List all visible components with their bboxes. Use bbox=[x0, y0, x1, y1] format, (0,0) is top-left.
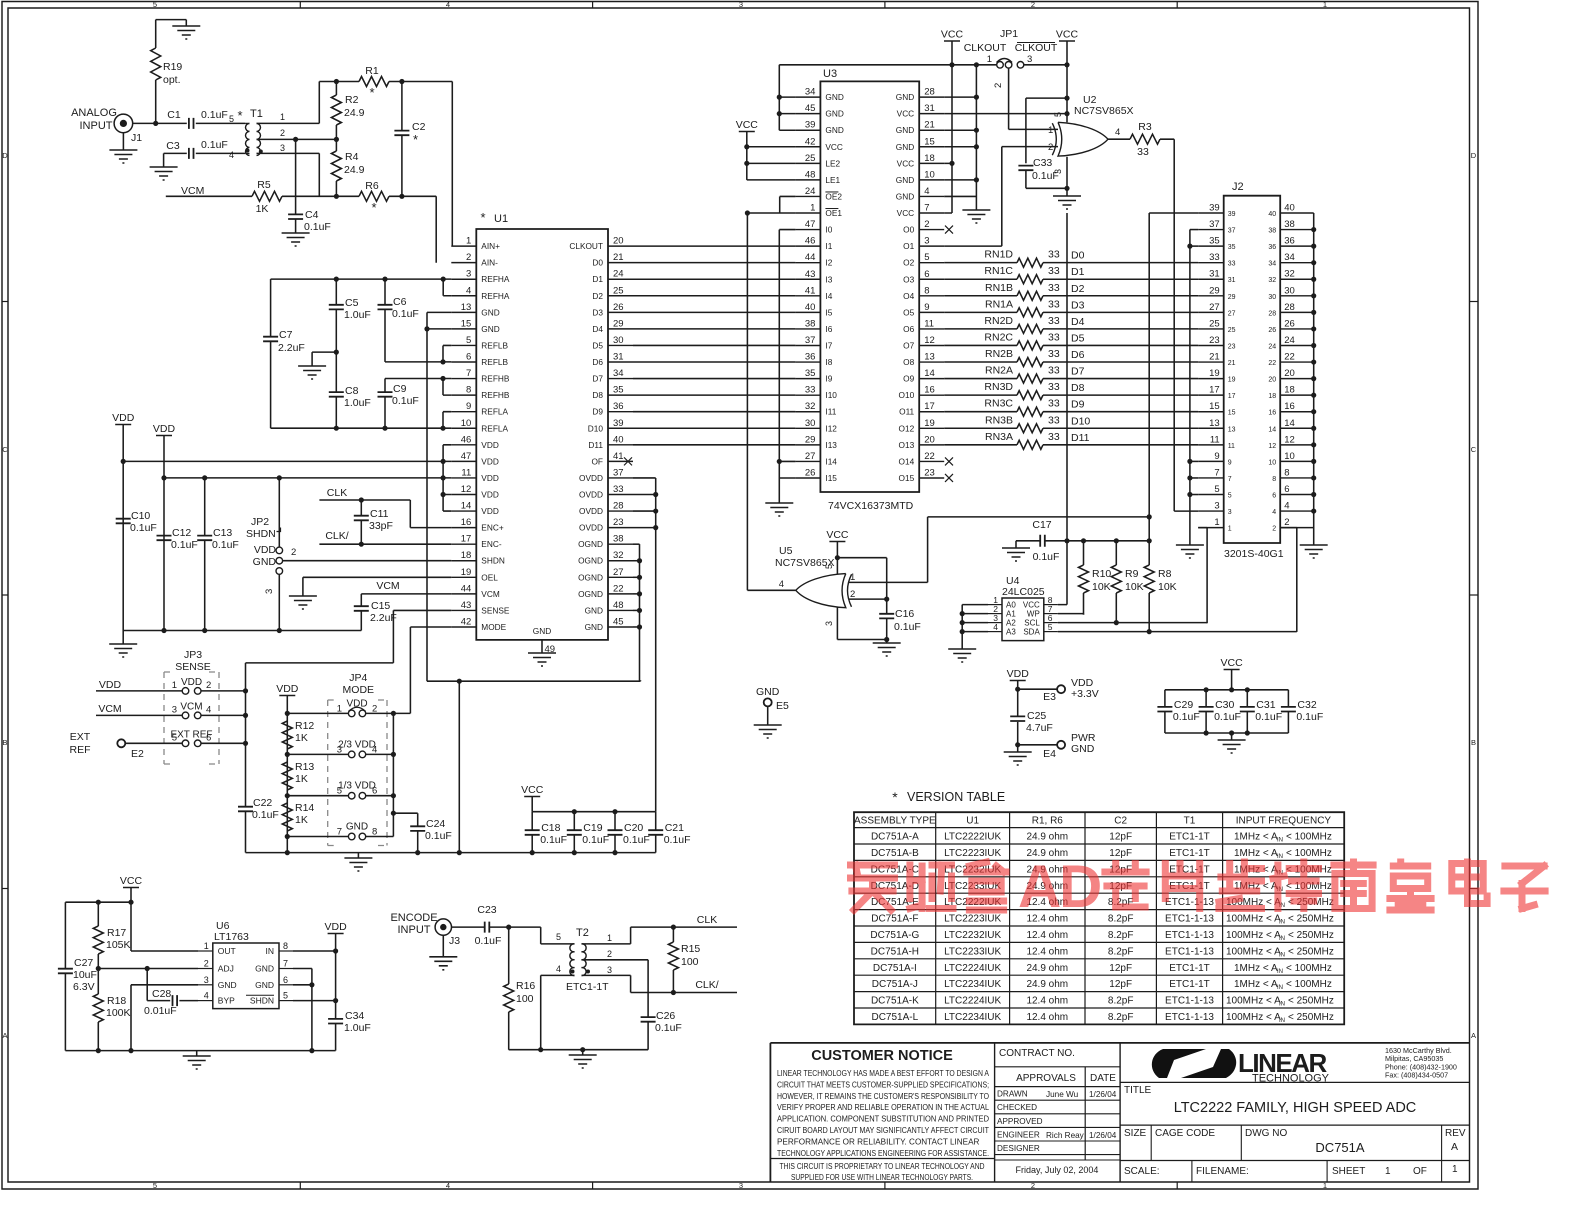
svg-text:CLK: CLK bbox=[327, 487, 347, 499]
svg-text:RN3A: RN3A bbox=[985, 431, 1013, 443]
svg-text:29: 29 bbox=[805, 434, 816, 445]
svg-text:I15: I15 bbox=[825, 473, 837, 483]
svg-text:17: 17 bbox=[461, 534, 472, 545]
svg-text:A3: A3 bbox=[1006, 628, 1016, 637]
svg-text:0.1uF: 0.1uF bbox=[1173, 711, 1200, 723]
svg-text:46: 46 bbox=[805, 236, 816, 247]
capacitor C7 bbox=[263, 279, 305, 428]
svg-text:3: 3 bbox=[1228, 509, 1232, 516]
wire MODE net bbox=[410, 627, 451, 713]
svg-text:*: * bbox=[413, 132, 418, 147]
wire T2 pin4 bbox=[538, 964, 574, 1052]
connector J1 bbox=[114, 114, 142, 144]
wire U1 CLKOUT to U3 I1 bbox=[633, 245, 795, 247]
svg-text:1: 1 bbox=[987, 54, 992, 65]
U3 no-connect X pins 2 22 23 bbox=[945, 226, 953, 482]
svg-text:D1: D1 bbox=[1071, 266, 1085, 278]
svg-text:38: 38 bbox=[1284, 219, 1295, 230]
svg-text:D: D bbox=[1471, 151, 1477, 160]
svg-text:37: 37 bbox=[613, 467, 624, 478]
svg-text:43: 43 bbox=[461, 600, 472, 611]
svg-text:LTC2234IUK: LTC2234IUK bbox=[944, 979, 1001, 990]
svg-text:C32: C32 bbox=[1297, 699, 1316, 711]
svg-text:6: 6 bbox=[283, 975, 288, 985]
wire VDD pin47 rail bbox=[123, 459, 451, 464]
svg-text:45: 45 bbox=[805, 103, 816, 114]
wire U5 VCC to C16 top bbox=[837, 558, 886, 614]
svg-text:CLKOUT: CLKOUT bbox=[964, 42, 1007, 54]
wire CLK/ to ENC- bbox=[319, 542, 451, 547]
capacitor C18 bbox=[525, 812, 567, 853]
svg-text:REFLA: REFLA bbox=[481, 423, 508, 433]
svg-text:33: 33 bbox=[1048, 249, 1060, 261]
svg-text:33: 33 bbox=[1048, 348, 1060, 360]
ground at U6 rail bbox=[183, 1051, 211, 1069]
svg-text:HOWEVER, IT REMAINS THE CUSTOM: HOWEVER, IT REMAINS THE CUSTOMER'S RESPO… bbox=[777, 1091, 989, 1101]
svg-text:LTC2223IUK: LTC2223IUK bbox=[944, 848, 1001, 859]
svg-text:LTC2234IUK: LTC2234IUK bbox=[944, 1012, 1001, 1023]
svg-text:1K: 1K bbox=[295, 814, 308, 826]
wire U1 VDD pins interconnect bbox=[441, 445, 452, 511]
svg-text:5: 5 bbox=[924, 252, 929, 263]
svg-text:33: 33 bbox=[1048, 414, 1060, 426]
svg-text:0.1uF: 0.1uF bbox=[582, 834, 609, 846]
power VDD rail 1 bbox=[112, 412, 135, 631]
svg-text:14: 14 bbox=[924, 368, 935, 379]
svg-text:33: 33 bbox=[1228, 261, 1236, 268]
svg-text:39: 39 bbox=[1228, 211, 1236, 218]
svg-text:R8: R8 bbox=[1158, 568, 1172, 580]
svg-text:C2: C2 bbox=[1114, 816, 1127, 827]
svg-text:5: 5 bbox=[1053, 112, 1063, 117]
svg-text:CIRUIT BOARD LAYOUT MAY SIGNIF: CIRUIT BOARD LAYOUT MAY SIGNIFICANTLY AF… bbox=[777, 1125, 990, 1135]
svg-text:23: 23 bbox=[613, 517, 624, 528]
svg-text:LTC2222 FAMILY, HIGH SPEED ADC: LTC2222 FAMILY, HIGH SPEED ADC bbox=[1174, 1100, 1417, 1116]
svg-text:C10: C10 bbox=[131, 510, 150, 522]
power VCC rail at U5 bbox=[826, 529, 849, 575]
svg-text:36: 36 bbox=[1268, 244, 1276, 251]
svg-text:9: 9 bbox=[924, 302, 929, 313]
svg-text:I3: I3 bbox=[825, 274, 832, 284]
svg-text:14: 14 bbox=[1268, 426, 1276, 433]
resistor R4 bbox=[331, 139, 364, 196]
svg-text:29: 29 bbox=[613, 318, 624, 329]
svg-text:VCC: VCC bbox=[825, 142, 843, 152]
svg-text:16: 16 bbox=[461, 517, 472, 528]
svg-text:5: 5 bbox=[466, 335, 471, 346]
svg-text:GND: GND bbox=[346, 822, 368, 833]
svg-text:VDD: VDD bbox=[481, 490, 499, 500]
svg-text:C28: C28 bbox=[152, 988, 171, 1000]
svg-text:D9: D9 bbox=[1071, 399, 1085, 411]
wire CLK to ENC+ bbox=[319, 497, 451, 527]
svg-text:4: 4 bbox=[1284, 501, 1289, 512]
svg-text:D2: D2 bbox=[1071, 283, 1085, 295]
svg-text:O12: O12 bbox=[899, 423, 915, 433]
svg-text:LTC2224IUK: LTC2224IUK bbox=[944, 963, 1001, 974]
svg-text:RN1A: RN1A bbox=[985, 298, 1013, 310]
svg-text:I12: I12 bbox=[825, 423, 837, 433]
svg-text:I5: I5 bbox=[825, 307, 832, 317]
svg-text:SENSE: SENSE bbox=[175, 661, 211, 673]
svg-text:OE1: OE1 bbox=[825, 208, 842, 218]
svg-text:D6: D6 bbox=[1071, 349, 1085, 361]
svg-text:13: 13 bbox=[1209, 418, 1220, 429]
svg-text:10uF: 10uF bbox=[73, 969, 97, 981]
svg-text:LTC2233IUK: LTC2233IUK bbox=[944, 946, 1001, 957]
svg-text:INPUT: INPUT bbox=[398, 924, 431, 936]
svg-text:RN2B: RN2B bbox=[985, 348, 1013, 360]
svg-text:< 250MHz: < 250MHz bbox=[1288, 996, 1334, 1007]
svg-text:23: 23 bbox=[1209, 335, 1220, 346]
svg-text:A2: A2 bbox=[1006, 619, 1016, 628]
ground at U2 pin3 bbox=[1053, 188, 1081, 209]
svg-text:GND: GND bbox=[896, 142, 914, 152]
node CLK label left bbox=[327, 487, 347, 499]
svg-text:100MHz < A: 100MHz < A bbox=[1226, 996, 1281, 1007]
svg-text:C: C bbox=[1471, 445, 1477, 454]
capacitor C23 bbox=[452, 904, 512, 947]
svg-text:A: A bbox=[1451, 1141, 1458, 1153]
svg-text:4: 4 bbox=[204, 991, 209, 1001]
ground at C16 bbox=[873, 640, 901, 657]
svg-text:19: 19 bbox=[924, 418, 935, 429]
svg-text:R18: R18 bbox=[107, 995, 126, 1007]
svg-text:21: 21 bbox=[1228, 360, 1236, 367]
svg-text:I8: I8 bbox=[825, 357, 832, 367]
svg-text:D8: D8 bbox=[592, 390, 603, 400]
svg-text:GND: GND bbox=[481, 324, 499, 334]
svg-text:4.7uF: 4.7uF bbox=[1026, 722, 1053, 734]
jumper JP3 SENSE bbox=[164, 649, 219, 764]
svg-text:45: 45 bbox=[613, 616, 624, 627]
svg-text:DC751A-B: DC751A-B bbox=[871, 848, 919, 859]
svg-text:*: * bbox=[892, 789, 898, 805]
svg-text:OEL: OEL bbox=[481, 572, 498, 582]
svg-text:30: 30 bbox=[1284, 285, 1295, 296]
svg-text:I1: I1 bbox=[825, 241, 832, 251]
svg-text:APPROVALS: APPROVALS bbox=[1016, 1073, 1076, 1084]
svg-text:C30: C30 bbox=[1215, 699, 1234, 711]
svg-text:24: 24 bbox=[613, 269, 624, 280]
svg-text:OGND: OGND bbox=[578, 556, 603, 566]
svg-text:2: 2 bbox=[1031, 1181, 1035, 1190]
svg-text:D8: D8 bbox=[1071, 382, 1085, 394]
wire D2 data line U1 to U3 bbox=[633, 295, 795, 297]
svg-text:3: 3 bbox=[739, 0, 743, 9]
svg-text:2: 2 bbox=[607, 949, 612, 959]
svg-text:0.1uF: 0.1uF bbox=[655, 1022, 682, 1034]
svg-text:33: 33 bbox=[1209, 252, 1220, 263]
svg-text:27: 27 bbox=[805, 451, 816, 462]
svg-text:C31: C31 bbox=[1256, 699, 1275, 711]
svg-text:< 250MHz: < 250MHz bbox=[1288, 1012, 1334, 1023]
svg-text:O1: O1 bbox=[903, 241, 914, 251]
svg-text:100MHz < A: 100MHz < A bbox=[1226, 1012, 1281, 1023]
svg-text:15: 15 bbox=[1209, 401, 1220, 412]
svg-text:June Wu: June Wu bbox=[1046, 1090, 1079, 1099]
svg-text:E2: E2 bbox=[131, 748, 144, 760]
svg-text:6: 6 bbox=[466, 352, 471, 363]
svg-text:41: 41 bbox=[805, 285, 816, 296]
connector J3 bbox=[435, 919, 460, 947]
capacitor C33 bbox=[1018, 98, 1067, 188]
svg-text:AIN+: AIN+ bbox=[481, 241, 500, 251]
svg-text:VCC: VCC bbox=[1056, 29, 1079, 41]
svg-text:1: 1 bbox=[1452, 1164, 1458, 1175]
wire JP4 row wires bbox=[287, 711, 410, 837]
resistor RN1A 33 ohm bbox=[944, 298, 1198, 317]
svg-text:A: A bbox=[1018, 853, 1061, 920]
svg-text:2.2uF: 2.2uF bbox=[278, 342, 305, 354]
svg-text:B: B bbox=[1471, 738, 1476, 747]
wire D10 data line U1 to U3 bbox=[633, 427, 795, 429]
svg-text:APPROVED: APPROVED bbox=[997, 1117, 1043, 1126]
svg-text:O10: O10 bbox=[899, 390, 915, 400]
svg-text:23: 23 bbox=[924, 467, 935, 478]
wire REFHA pin4 jog bbox=[443, 279, 451, 296]
svg-text:2: 2 bbox=[1048, 142, 1053, 153]
svg-text:OVDD: OVDD bbox=[579, 523, 603, 533]
svg-text:19: 19 bbox=[461, 567, 472, 578]
svg-text:E3: E3 bbox=[1043, 691, 1056, 703]
resistor RN2B 33 ohm bbox=[944, 348, 1198, 367]
svg-text:14: 14 bbox=[1284, 418, 1295, 429]
svg-text:C22: C22 bbox=[253, 797, 272, 809]
svg-text:14: 14 bbox=[461, 501, 472, 512]
svg-text:4: 4 bbox=[1272, 509, 1276, 516]
svg-text:1: 1 bbox=[1048, 125, 1053, 136]
node ENCODE INPUT label bbox=[390, 912, 437, 936]
wire VDD to JP3 pin1 bbox=[124, 690, 182, 692]
svg-text:J2: J2 bbox=[1232, 181, 1244, 193]
svg-text:RN1C: RN1C bbox=[984, 265, 1013, 277]
svg-text:C26: C26 bbox=[656, 1010, 675, 1022]
svg-text:26: 26 bbox=[613, 302, 624, 313]
svg-text:44: 44 bbox=[805, 252, 816, 263]
svg-text:8.2pF: 8.2pF bbox=[1108, 930, 1134, 941]
svg-text:+3.3V: +3.3V bbox=[1071, 688, 1099, 700]
svg-text:D3: D3 bbox=[1071, 299, 1085, 311]
node CLK/ label left bbox=[325, 530, 348, 542]
svg-text:VCC: VCC bbox=[736, 119, 759, 131]
wire D6 data line U1 to U3 bbox=[633, 361, 795, 363]
svg-text:D4: D4 bbox=[592, 324, 603, 334]
svg-text:OGND: OGND bbox=[578, 589, 603, 599]
svg-text:O0: O0 bbox=[903, 225, 914, 235]
svg-text:IN: IN bbox=[1277, 854, 1283, 860]
svg-text:R15: R15 bbox=[681, 943, 700, 955]
svg-text:R5: R5 bbox=[257, 179, 271, 191]
svg-text:opt.: opt. bbox=[163, 74, 181, 86]
svg-text:0.1uF: 0.1uF bbox=[171, 539, 198, 551]
svg-text:DC751A-J: DC751A-J bbox=[872, 979, 918, 990]
svg-text:33: 33 bbox=[1048, 381, 1060, 393]
svg-text:4: 4 bbox=[446, 0, 450, 9]
wire T2 pin1 to CLK bbox=[582, 925, 738, 944]
wire U4 WP to R10 bbox=[1058, 614, 1084, 615]
svg-text:24.9 ohm: 24.9 ohm bbox=[1026, 832, 1068, 843]
svg-text:9: 9 bbox=[1228, 459, 1232, 466]
wire T2 bottom rail and ground bbox=[509, 1047, 648, 1068]
svg-text:33: 33 bbox=[1048, 431, 1060, 443]
capacitor C25 bbox=[1010, 689, 1053, 745]
svg-text:RN3B: RN3B bbox=[985, 414, 1013, 426]
power VCC rail JP1 left bbox=[941, 29, 964, 214]
customer notice text bbox=[770, 1048, 994, 1182]
svg-text:13: 13 bbox=[924, 352, 935, 363]
svg-text:IN: IN bbox=[1279, 936, 1285, 942]
svg-text:33: 33 bbox=[1048, 265, 1060, 277]
svg-text:100MHz < A: 100MHz < A bbox=[1226, 914, 1281, 925]
svg-text:5: 5 bbox=[172, 732, 177, 743]
svg-text:CAGE CODE: CAGE CODE bbox=[1155, 1128, 1215, 1139]
svg-text:15: 15 bbox=[461, 318, 472, 329]
svg-text:I0: I0 bbox=[825, 225, 832, 235]
svg-text:3: 3 bbox=[824, 621, 834, 626]
svg-text:23: 23 bbox=[1228, 343, 1236, 350]
svg-text:D11: D11 bbox=[1071, 432, 1090, 444]
svg-text:< 100MHz: < 100MHz bbox=[1286, 979, 1332, 990]
svg-text:40: 40 bbox=[805, 302, 816, 313]
svg-text:48: 48 bbox=[613, 600, 624, 611]
power VDD rail at U6 IN bbox=[325, 921, 348, 954]
svg-text:RN2C: RN2C bbox=[984, 331, 1013, 343]
capacitor C12 bbox=[157, 527, 198, 551]
svg-text:BYP: BYP bbox=[218, 996, 235, 1006]
wire U3 right VCC pins 18 7 bbox=[944, 163, 952, 213]
svg-text:R1: R1 bbox=[365, 65, 379, 77]
jumper JP1 bbox=[964, 28, 1058, 88]
node VDD label JP3 bbox=[96, 679, 124, 691]
svg-text:OUT: OUT bbox=[218, 946, 236, 956]
wire J2 pins 37 35 9 7 5 ground bus bbox=[1176, 230, 1204, 558]
svg-text:43: 43 bbox=[805, 269, 816, 280]
resistor R1 bbox=[334, 65, 405, 100]
op-amp U2 NC7SV865X XOR gate bbox=[1048, 94, 1134, 174]
svg-text:C: C bbox=[2, 445, 8, 454]
resistor RN3D 33 ohm bbox=[944, 381, 1198, 400]
svg-text:R12: R12 bbox=[295, 720, 314, 732]
svg-text:VCC: VCC bbox=[1023, 601, 1040, 610]
svg-text:FILENAME:: FILENAME: bbox=[1196, 1166, 1249, 1177]
svg-text:VCM: VCM bbox=[181, 185, 204, 197]
wire VCC rail C18-C21 top bbox=[532, 809, 656, 814]
svg-text:VCM: VCM bbox=[180, 701, 202, 712]
svg-text:VCM: VCM bbox=[376, 580, 399, 592]
svg-text:2: 2 bbox=[924, 219, 929, 230]
svg-text:Fax: (408)434-0507: Fax: (408)434-0507 bbox=[1385, 1071, 1448, 1080]
svg-text:1K: 1K bbox=[256, 203, 269, 215]
svg-text:OVDD: OVDD bbox=[579, 490, 603, 500]
svg-text:GND: GND bbox=[255, 980, 274, 990]
scale filename sheet row bbox=[1120, 1161, 1469, 1183]
svg-text:D4: D4 bbox=[1071, 316, 1085, 328]
svg-text:DC751A-G: DC751A-G bbox=[870, 930, 919, 941]
wire SCL net bbox=[1058, 620, 1207, 625]
resistor R18 bbox=[93, 969, 130, 1051]
svg-text:VDD: VDD bbox=[99, 679, 122, 691]
svg-text:0.1uF: 0.1uF bbox=[664, 834, 691, 846]
capacitor C32 bbox=[1281, 690, 1323, 733]
svg-text:1.0uF: 1.0uF bbox=[344, 397, 371, 409]
svg-text:R2: R2 bbox=[345, 94, 359, 106]
svg-text:LTC2232IUK: LTC2232IUK bbox=[944, 930, 1001, 941]
svg-text:47: 47 bbox=[461, 451, 472, 462]
svg-text:DC751A: DC751A bbox=[1315, 1140, 1364, 1155]
svg-text:29: 29 bbox=[1209, 285, 1220, 296]
svg-text:0.1uF: 0.1uF bbox=[623, 834, 650, 846]
svg-text:SCALE:: SCALE: bbox=[1124, 1166, 1160, 1177]
svg-text:28: 28 bbox=[1284, 302, 1295, 313]
svg-text:5: 5 bbox=[153, 1181, 157, 1190]
svg-text:SENSE: SENSE bbox=[481, 605, 510, 615]
svg-text:GND: GND bbox=[825, 109, 843, 119]
svg-text:33: 33 bbox=[805, 385, 816, 396]
svg-text:C9: C9 bbox=[393, 383, 407, 395]
svg-text:0.1uF: 0.1uF bbox=[1296, 711, 1323, 723]
svg-text:34: 34 bbox=[1284, 252, 1295, 263]
svg-text:24: 24 bbox=[805, 186, 816, 197]
svg-text:OGND: OGND bbox=[578, 539, 603, 549]
wire U3 O1 to U2 input2 bbox=[944, 147, 1058, 247]
wire C29-C32 bottom rail and ground bbox=[1165, 730, 1289, 753]
svg-text:10: 10 bbox=[1284, 451, 1295, 462]
title block frame bbox=[770, 1043, 1469, 1182]
svg-text:CLK/: CLK/ bbox=[695, 979, 718, 991]
svg-text:IN: IN bbox=[1279, 952, 1285, 958]
svg-text:TITLE: TITLE bbox=[1124, 1085, 1152, 1096]
svg-text:CLKOUT: CLKOUT bbox=[569, 241, 603, 251]
svg-text:C34: C34 bbox=[345, 1010, 364, 1022]
svg-text:A: A bbox=[2, 1031, 7, 1040]
svg-text:10: 10 bbox=[461, 418, 472, 429]
svg-text:C16: C16 bbox=[895, 608, 914, 620]
svg-text:VCM: VCM bbox=[481, 589, 500, 599]
wire U5 pin1 to CLK net bbox=[849, 517, 1149, 583]
svg-text:21: 21 bbox=[924, 120, 935, 131]
svg-text:VDD: VDD bbox=[1007, 668, 1030, 680]
svg-text:DESIGNER: DESIGNER bbox=[997, 1144, 1040, 1153]
svg-text:34: 34 bbox=[805, 87, 816, 98]
ground at J3 bbox=[429, 936, 457, 970]
node CLK/ label right bbox=[695, 979, 718, 991]
wire VCM to JP3 pin3 bbox=[124, 714, 182, 716]
svg-text:1: 1 bbox=[1214, 517, 1219, 528]
wire VCC vertical U3 to U4 bbox=[1058, 213, 1067, 605]
svg-text:22: 22 bbox=[924, 451, 935, 462]
op-amp U1 LTC2222 ADC block bbox=[451, 210, 633, 640]
U1 pin 49 GND and ground bbox=[528, 640, 556, 666]
svg-text:0.1uF: 0.1uF bbox=[894, 621, 921, 633]
ground symbol JP4 GND row bbox=[344, 853, 372, 871]
svg-text:35: 35 bbox=[613, 385, 624, 396]
svg-text:DC751A-A: DC751A-A bbox=[871, 832, 919, 843]
svg-text:O3: O3 bbox=[903, 274, 914, 284]
svg-text:39: 39 bbox=[1209, 203, 1220, 214]
connector J2 3201S-40G1 bbox=[1198, 181, 1314, 543]
resistor RN1D 33 ohm bbox=[944, 249, 1198, 268]
svg-text:105K: 105K bbox=[106, 939, 131, 951]
svg-text:8: 8 bbox=[283, 941, 288, 951]
wire U1 GND pins 13 15 bus bbox=[424, 312, 451, 681]
svg-text:7: 7 bbox=[466, 368, 471, 379]
svg-text:RN3D: RN3D bbox=[984, 381, 1013, 393]
svg-text:100: 100 bbox=[681, 956, 699, 968]
svg-text:J3: J3 bbox=[449, 935, 460, 947]
svg-text:12pF: 12pF bbox=[1109, 848, 1132, 859]
svg-text:25: 25 bbox=[805, 153, 816, 164]
